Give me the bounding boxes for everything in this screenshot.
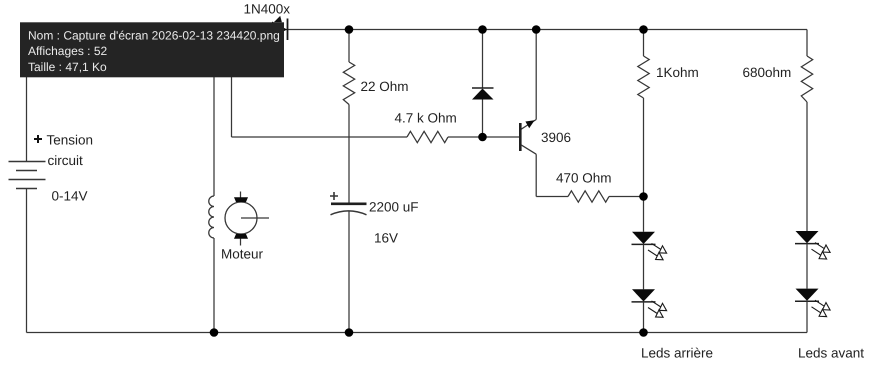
wire left rail upper: [26, 30, 28, 162]
diode D2 triangle: [472, 89, 494, 100]
svg-text:Leds arrière: Leds arrière: [641, 346, 713, 361]
transistor Q1 collector diagonal: [521, 120, 536, 130]
LED D6 light arrows: [809, 297, 832, 320]
LED D5 triangle: [796, 231, 819, 243]
wire 680ohm to leds: [806, 102, 808, 231]
LED D4 triangle: [632, 289, 655, 301]
capacitor C1 bottom plate curved: [331, 211, 367, 215]
mouse cursor: [274, 16, 282, 22]
wire led4 to bottom: [806, 301, 808, 332]
svg-text:470 Ohm: 470 Ohm: [556, 171, 612, 186]
svg-text:Affichages : 52: Affichages : 52: [28, 44, 107, 58]
motor top terminal tick: [240, 192, 242, 202]
battery plus sign: [34, 135, 42, 143]
wire 22ohm to capacitor: [348, 105, 350, 203]
wire 22ohm rail upper: [348, 30, 350, 63]
resistor R3 470 Ohm zigzag: [568, 191, 609, 202]
LED D3 light arrows: [646, 240, 669, 263]
junction bottom at led rail: [639, 328, 648, 337]
svg-text:3906: 3906: [541, 130, 571, 145]
svg-text:Leds avant: Leds avant: [798, 346, 864, 361]
diode D2 cathode bar: [472, 87, 494, 89]
svg-text:680ohm: 680ohm: [743, 65, 792, 80]
wire base horizontal right: [448, 136, 519, 138]
svg-text:Tension: Tension: [47, 133, 94, 148]
diode D2 rail upper: [482, 30, 484, 89]
wire capacitor to bottom: [348, 212, 350, 333]
wire bottom rail: [27, 332, 808, 334]
motor shaft line: [241, 217, 269, 219]
svg-text:2200 uF: 2200 uF: [369, 200, 419, 215]
transistor Q1 base bar: [519, 123, 522, 151]
diode D2 rail lower: [482, 100, 484, 138]
LED D5 cathode bar: [795, 243, 819, 245]
svg-text:22 Ohm: 22 Ohm: [361, 79, 409, 94]
wire 470 to led rail: [609, 196, 644, 198]
svg-text:1N400x: 1N400x: [244, 2, 291, 17]
svg-text:circuit: circuit: [48, 153, 84, 168]
battery B1: [9, 162, 46, 189]
motor top brush: [234, 197, 248, 202]
junction top at collector: [532, 25, 541, 34]
svg-text:Moteur: Moteur: [221, 247, 264, 262]
svg-text:Nom : Capture d'écran 2026-02-: Nom : Capture d'écran 2026-02-13 234420.…: [28, 28, 280, 42]
wire left rail lower: [26, 189, 28, 333]
junction base node: [478, 133, 487, 142]
inductor motor field coil: [209, 196, 214, 238]
LED D6 triangle: [796, 289, 819, 301]
motor M1 body: [225, 202, 257, 234]
diode D1 cathode bar: [287, 19, 289, 41]
wire motor rail lower: [213, 238, 215, 333]
motor bottom brush: [234, 234, 248, 239]
transistor Q1 emitter wire: [535, 154, 537, 196]
svg-text:Taille : 47,1 Ko: Taille : 47,1 Ko: [28, 60, 107, 74]
resistor R2 4.7 k Ohm zigzag: [407, 131, 448, 142]
svg-text:4.7 k Ohm: 4.7 k Ohm: [395, 111, 457, 126]
diode D1 1N400x triangle: [272, 22, 287, 38]
svg-text:1Kohm: 1Kohm: [656, 65, 699, 80]
resistor R5 680ohm zigzag: [801, 56, 812, 102]
junction top at diode D2: [478, 25, 487, 34]
capacitor C1 plus sign: [330, 192, 338, 200]
wire base horizontal left: [232, 136, 408, 138]
svg-text:16V: 16V: [374, 231, 398, 246]
junction top at 22ohm: [345, 25, 354, 34]
transistor Q1 emitter diagonal: [521, 145, 536, 154]
transistor Q1 collector wire: [535, 30, 537, 120]
motor bottom terminal tick: [240, 235, 242, 246]
capacitor C1 top plate: [331, 203, 367, 206]
wire led1 to led2: [643, 244, 645, 289]
tooltip box: [20, 22, 284, 77]
LED D5 light arrows: [809, 239, 832, 262]
svg-text:0-14V: 0-14V: [52, 189, 88, 204]
LED D3 cathode bar: [632, 243, 656, 245]
junction bottom at capacitor: [345, 328, 354, 337]
junction top at 1kohm: [639, 25, 648, 34]
LED D4 light arrows: [646, 298, 669, 321]
wire 1kohm to leds: [643, 98, 645, 232]
resistor R4 1Kohm zigzag: [638, 56, 649, 98]
wire 1kohm rail upper: [643, 30, 645, 57]
wire emitter to 470: [536, 196, 568, 198]
wire base tap vertical: [231, 30, 233, 138]
LED D6 cathode bar: [795, 300, 819, 302]
junction led rail at 470: [639, 192, 648, 201]
wire led2 to bottom: [643, 302, 645, 333]
LED D3 triangle: [632, 232, 655, 244]
wire 680ohm rail upper: [806, 30, 808, 57]
wire motor rail upper: [213, 30, 215, 197]
wire top rail: [27, 29, 808, 31]
junction bottom at motor: [210, 328, 219, 337]
wire led3 to led4: [806, 244, 808, 289]
resistor R1 22 Ohm zigzag: [343, 62, 354, 105]
transistor Q1 emitter arrow: [525, 120, 534, 128]
LED D4 cathode bar: [632, 301, 656, 303]
